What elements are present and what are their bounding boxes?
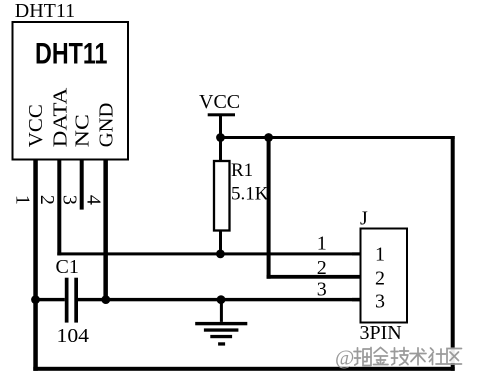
svg-text:1: 1	[11, 195, 33, 205]
svg-text:104: 104	[57, 325, 90, 347]
watermark white backing behind 区 over wire	[445, 348, 464, 364]
capacitor C1 left plate	[65, 278, 69, 323]
junction dot at pin4 / GND rail	[101, 295, 110, 304]
svg-text:1: 1	[317, 232, 327, 254]
wire: GND rail right segment	[78, 298, 361, 301]
svg-text:5.1K: 5.1K	[231, 184, 269, 205]
junction dot at ground stem / GND rail	[217, 295, 226, 304]
wire: bottom rail	[33, 367, 454, 371]
wire: GND rail left segment	[33, 298, 65, 301]
watermark glyph 技	[391, 348, 409, 366]
svg-text:VCC: VCC	[199, 91, 240, 113]
junction dot at VCC stem / top rail	[216, 133, 225, 142]
power symbol VCC bar	[208, 113, 235, 116]
junction dot at C1 left / VCC vertical	[31, 295, 40, 304]
svg-text:2: 2	[375, 268, 385, 290]
wire: VCC drop vertical to connector pin 2	[267, 136, 271, 279]
junction dot at VCC drop / top rail	[264, 133, 273, 142]
wire: pin 1 stub + left vertical VCC net	[33, 159, 38, 371]
connector J box	[361, 229, 408, 323]
svg-text:DATA: DATA	[49, 87, 71, 147]
svg-text:NC: NC	[72, 114, 94, 147]
wire: connector pin 2 horizontal	[267, 275, 361, 279]
resistor R1 top stem	[219, 138, 222, 162]
wire: connector pin 1 horizontal (DATA)	[352, 252, 361, 255]
ground bar 4	[218, 342, 225, 345]
ground bar 2	[204, 328, 239, 331]
wire: connector pin 3 horizontal (GND)	[352, 298, 361, 301]
ground bar 1	[195, 322, 247, 325]
power symbol VCC stem	[219, 116, 222, 138]
ground bar 3	[210, 335, 232, 338]
junction dot at resistor bottom / DATA rail	[216, 250, 225, 259]
ground stem	[220, 300, 223, 322]
resistor R1 body	[214, 161, 230, 231]
svg-text:2: 2	[36, 195, 58, 205]
watermark glyph 区	[447, 349, 462, 365]
watermark glyph 掘	[354, 348, 371, 366]
svg-text:R1: R1	[231, 160, 253, 181]
svg-text:@: @	[335, 346, 354, 370]
svg-text:2: 2	[317, 257, 327, 279]
svg-text:GND: GND	[96, 103, 118, 148]
svg-text:C1: C1	[56, 256, 79, 278]
svg-text:3: 3	[375, 290, 385, 312]
svg-text:3: 3	[317, 279, 327, 301]
svg-text:3: 3	[59, 195, 81, 205]
wire: DATA rail	[57, 252, 361, 255]
watermark @掘金技术社区	[335, 346, 462, 370]
svg-text:VCC: VCC	[25, 104, 47, 147]
svg-text:DHT11: DHT11	[15, 0, 75, 22]
watermark glyph 术	[410, 348, 426, 365]
watermark glyph 社	[429, 348, 446, 365]
sensor U1 box (DHT11)	[13, 22, 129, 160]
wire: pin 3 NC stub	[80, 159, 84, 210]
svg-text:4: 4	[82, 195, 104, 205]
capacitor C1 right plate	[74, 278, 78, 323]
svg-text:DHT11: DHT11	[35, 37, 108, 70]
wire: pin 4 stub down to GND rail	[103, 159, 108, 302]
resistor R1 bottom stem	[219, 231, 222, 254]
watermark glyph 金	[374, 348, 389, 365]
svg-text:J: J	[360, 208, 368, 230]
svg-text:3PIN: 3PIN	[360, 322, 402, 344]
svg-text:1: 1	[375, 244, 385, 266]
wire: right border vertical	[451, 136, 455, 371]
wire: top VCC rail	[219, 136, 455, 139]
wire: pin 2 stub down to DATA rail	[57, 159, 61, 256]
